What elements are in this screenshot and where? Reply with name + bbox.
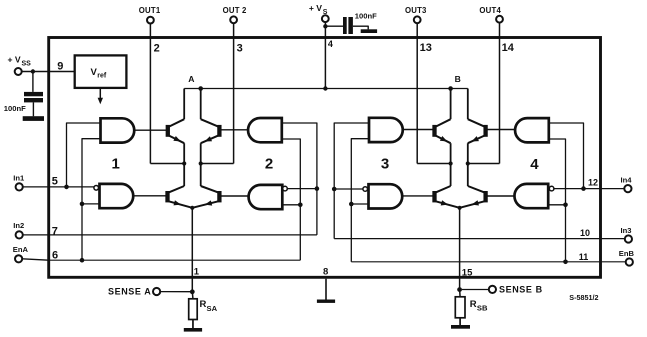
svg-text:+ V: + V — [309, 3, 322, 13]
svg-text:13: 13 — [420, 42, 432, 54]
svg-text:7: 7 — [52, 225, 58, 237]
svg-text:S: S — [323, 9, 328, 16]
svg-text:12: 12 — [588, 177, 598, 187]
svg-text:EnB: EnB — [619, 249, 635, 258]
svg-text:EnA: EnA — [13, 245, 29, 254]
svg-text:SB: SB — [477, 304, 488, 313]
svg-text:SA: SA — [207, 304, 218, 313]
svg-text:B: B — [455, 74, 461, 84]
svg-text:ref: ref — [97, 72, 107, 79]
svg-text:In3: In3 — [621, 226, 632, 235]
svg-text:OUT 2: OUT 2 — [223, 6, 247, 15]
svg-text:3: 3 — [381, 156, 389, 173]
svg-text:3: 3 — [237, 43, 243, 55]
svg-text:In2: In2 — [13, 221, 24, 230]
svg-text:1: 1 — [194, 266, 200, 277]
svg-text:9: 9 — [57, 61, 63, 73]
svg-text:R: R — [200, 299, 207, 310]
svg-text:SS: SS — [22, 60, 32, 67]
svg-text:S-5851/2: S-5851/2 — [569, 293, 598, 302]
svg-text:11: 11 — [579, 252, 589, 262]
svg-text:2: 2 — [265, 156, 273, 173]
svg-text:+ V: + V — [8, 55, 21, 65]
svg-text:OUT1: OUT1 — [139, 6, 161, 15]
svg-text:100nF: 100nF — [4, 104, 26, 113]
svg-text:OUT3: OUT3 — [405, 6, 427, 15]
svg-text:SENSE B: SENSE B — [499, 285, 543, 295]
svg-text:R: R — [470, 299, 477, 310]
svg-text:In1: In1 — [13, 173, 25, 182]
svg-text:10: 10 — [580, 228, 590, 238]
svg-text:100nF: 100nF — [355, 12, 377, 21]
svg-text:1: 1 — [112, 156, 120, 173]
svg-text:OUT4: OUT4 — [479, 6, 501, 15]
svg-text:14: 14 — [502, 42, 515, 54]
svg-text:SENSE A: SENSE A — [108, 287, 151, 297]
svg-text:8: 8 — [323, 267, 328, 278]
svg-text:In4: In4 — [621, 176, 633, 185]
svg-text:2: 2 — [154, 43, 160, 55]
svg-text:4: 4 — [530, 156, 539, 173]
svg-text:A: A — [188, 74, 194, 84]
svg-text:4: 4 — [328, 39, 333, 49]
svg-text:15: 15 — [462, 268, 473, 279]
svg-text:5: 5 — [52, 175, 58, 187]
